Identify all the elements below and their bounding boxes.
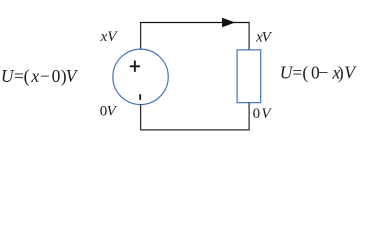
wire: resistor bottom terminal to bottom rail xyxy=(248,103,250,130)
svg-text:U=(0−x)V: U=(0−x)V xyxy=(280,63,358,83)
wire: voltage source top terminal to top rail xyxy=(140,23,142,50)
voltage source minus polarity mark xyxy=(139,94,141,100)
voltage source V1 body xyxy=(113,49,168,104)
resistor R1 xyxy=(237,50,261,103)
wire: voltage source bottom terminal to bottom rail xyxy=(140,104,142,130)
svg-text:0V: 0V xyxy=(253,106,273,122)
svg-text:xV: xV xyxy=(255,30,273,46)
wire: bottom rail (node 0) xyxy=(140,129,250,131)
wire: top rail (node x) xyxy=(140,22,250,24)
wire: top rail down to resistor top terminal xyxy=(248,23,250,51)
svg-text:U=(x−0)V: U=(x−0)V xyxy=(1,66,79,86)
svg-text:0V: 0V xyxy=(100,104,118,120)
current direction arrow on top rail xyxy=(222,18,235,28)
svg-text:xV: xV xyxy=(100,29,119,45)
voltage source plus polarity mark xyxy=(130,61,140,72)
